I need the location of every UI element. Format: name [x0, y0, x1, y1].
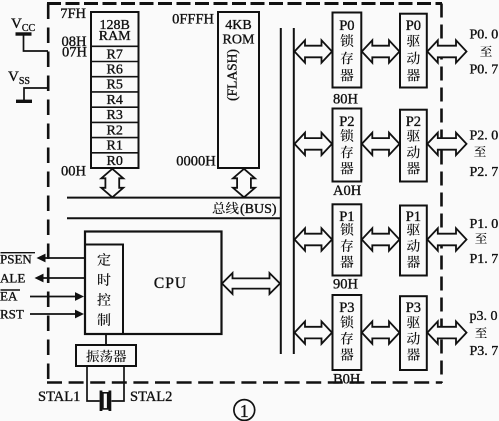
svg-text:P0: P0	[339, 18, 354, 34]
arrow P0 latch-driver	[362, 40, 400, 62]
figure number 1 circled	[234, 400, 255, 421]
arrow CPU-bus	[222, 273, 280, 294]
ground VSS bar	[16, 100, 32, 103]
bus vertical line left	[280, 28, 282, 354]
wire CPU-oscillator	[105, 334, 107, 345]
arrow P1 driver-pins	[427, 228, 466, 250]
arrow bus-P1 latch	[295, 228, 333, 250]
port P0 latch 锁存器	[333, 13, 362, 88]
RAM register row R7	[91, 45, 139, 47]
svg-text:R6: R6	[107, 63, 123, 78]
svg-text:P3. 7: P3. 7	[470, 344, 499, 359]
svg-text:P3: P3	[339, 300, 354, 316]
ROM block 4KB FLASH	[218, 12, 259, 168]
svg-text:P0. 7: P0. 7	[470, 63, 499, 78]
svg-text:P1. 7: P1. 7	[470, 252, 499, 267]
RAM register row R4	[91, 91, 139, 93]
arrow P3 latch-driver	[362, 321, 400, 343]
RAM register row R0	[91, 152, 139, 154]
wire VSS from boundary	[24, 88, 48, 100]
svg-text:P1: P1	[339, 209, 354, 225]
arrow P3 driver-pins	[427, 321, 466, 343]
svg-text:P2: P2	[406, 114, 421, 130]
svg-text:4KB: 4KB	[225, 18, 251, 33]
wire oscillator right leg	[112, 366, 125, 401]
svg-text:P2. 0: P2. 0	[470, 129, 499, 144]
svg-text:P3: P3	[406, 300, 421, 316]
arrow ROM-bus	[233, 169, 255, 198]
arrow P2 driver-pins	[427, 133, 466, 155]
svg-text:1: 1	[240, 401, 249, 421]
chip boundary (dashed) bottom	[47, 381, 442, 384]
port P0 driver 驱动器	[400, 14, 427, 88]
wire VCC to boundary	[24, 36, 49, 52]
svg-text:00H: 00H	[61, 163, 87, 179]
crystal body	[103, 393, 108, 409]
port P2 driver 驱动器	[400, 110, 427, 182]
svg-text:CPU: CPU	[154, 275, 187, 292]
arrow bus-P2 latch	[295, 133, 333, 155]
crystal right plate	[109, 391, 112, 412]
svg-text:(BUS): (BUS)	[240, 202, 277, 217]
RAM register row R5	[91, 76, 139, 78]
svg-text:B0H: B0H	[333, 372, 361, 388]
svg-text:P2. 7: P2. 7	[470, 165, 499, 180]
svg-text:P2: P2	[339, 114, 354, 130]
RAM register row R6	[91, 61, 139, 63]
bus label 总线(BUS)	[213, 202, 225, 214]
svg-text:R0: R0	[107, 154, 123, 169]
arrow RAM-bus	[101, 169, 123, 198]
svg-text:P1. 0: P1. 0	[470, 217, 499, 232]
bus horizontal line lower	[67, 217, 282, 219]
chip boundary (dashed) top	[47, 2, 442, 5]
svg-text:P0: P0	[406, 18, 421, 34]
svg-text:ALE: ALE	[0, 271, 25, 286]
svg-text:(FLASH): (FLASH)	[225, 49, 240, 101]
svg-text:R7: R7	[107, 47, 123, 62]
RAM block 128B	[91, 12, 139, 168]
port P3 driver 驱动器	[400, 296, 427, 370]
svg-text:0FFFH: 0FFFH	[172, 12, 214, 28]
port P3 latch 锁存器	[333, 295, 362, 370]
svg-text:PSEN: PSEN	[0, 252, 32, 267]
svg-text:R1: R1	[107, 139, 123, 154]
arrow P2 latch-driver	[362, 133, 400, 155]
chip boundary (dashed) left	[47, 4, 50, 384]
svg-text:R4: R4	[107, 93, 123, 108]
wire oscillator left leg	[87, 366, 100, 401]
svg-text:ROM: ROM	[223, 32, 255, 47]
svg-text:RST: RST	[0, 307, 24, 322]
arrow P1 latch-driver	[362, 228, 400, 250]
svg-text:p3. 0: p3. 0	[470, 309, 498, 324]
svg-text:07H: 07H	[62, 44, 88, 60]
svg-text:STAL2: STAL2	[130, 389, 172, 405]
power VCC rail bar	[16, 32, 32, 35]
svg-text:A0H: A0H	[333, 183, 362, 199]
port P1 driver 驱动器	[400, 206, 427, 276]
svg-text:R5: R5	[107, 78, 123, 93]
chip boundary (dashed) right	[440, 4, 443, 384]
svg-text:RAM: RAM	[99, 29, 131, 44]
svg-text:80H: 80H	[333, 92, 359, 108]
arrow bus-P0 latch	[295, 40, 333, 62]
port P1 latch 锁存器	[333, 204, 362, 275]
svg-text:0000H: 0000H	[176, 153, 216, 169]
svg-text:90H: 90H	[333, 277, 359, 293]
svg-text:R3: R3	[107, 108, 123, 123]
svg-text:STAL1: STAL1	[38, 389, 80, 405]
CPU block	[85, 232, 222, 335]
arrow bus-P3 latch	[295, 321, 333, 343]
bus vertical line right	[293, 28, 295, 354]
RAM register row R2	[91, 121, 139, 123]
bus horizontal line upper	[67, 197, 282, 199]
svg-text:EA: EA	[0, 289, 18, 304]
arrow P0 driver-pins	[427, 40, 466, 62]
RAM register row R3	[91, 106, 139, 108]
timing control sub-block 定时控制	[85, 245, 123, 335]
svg-text:P0. 0: P0. 0	[470, 28, 499, 43]
svg-text:7FH: 7FH	[60, 6, 86, 22]
svg-text:P1: P1	[406, 209, 421, 225]
port P2 latch 锁存器	[333, 109, 362, 182]
svg-text:R2: R2	[107, 123, 123, 138]
RAM register row R1	[91, 137, 139, 139]
crystal left plate	[100, 391, 103, 412]
oscillator block 振荡器	[76, 345, 136, 366]
